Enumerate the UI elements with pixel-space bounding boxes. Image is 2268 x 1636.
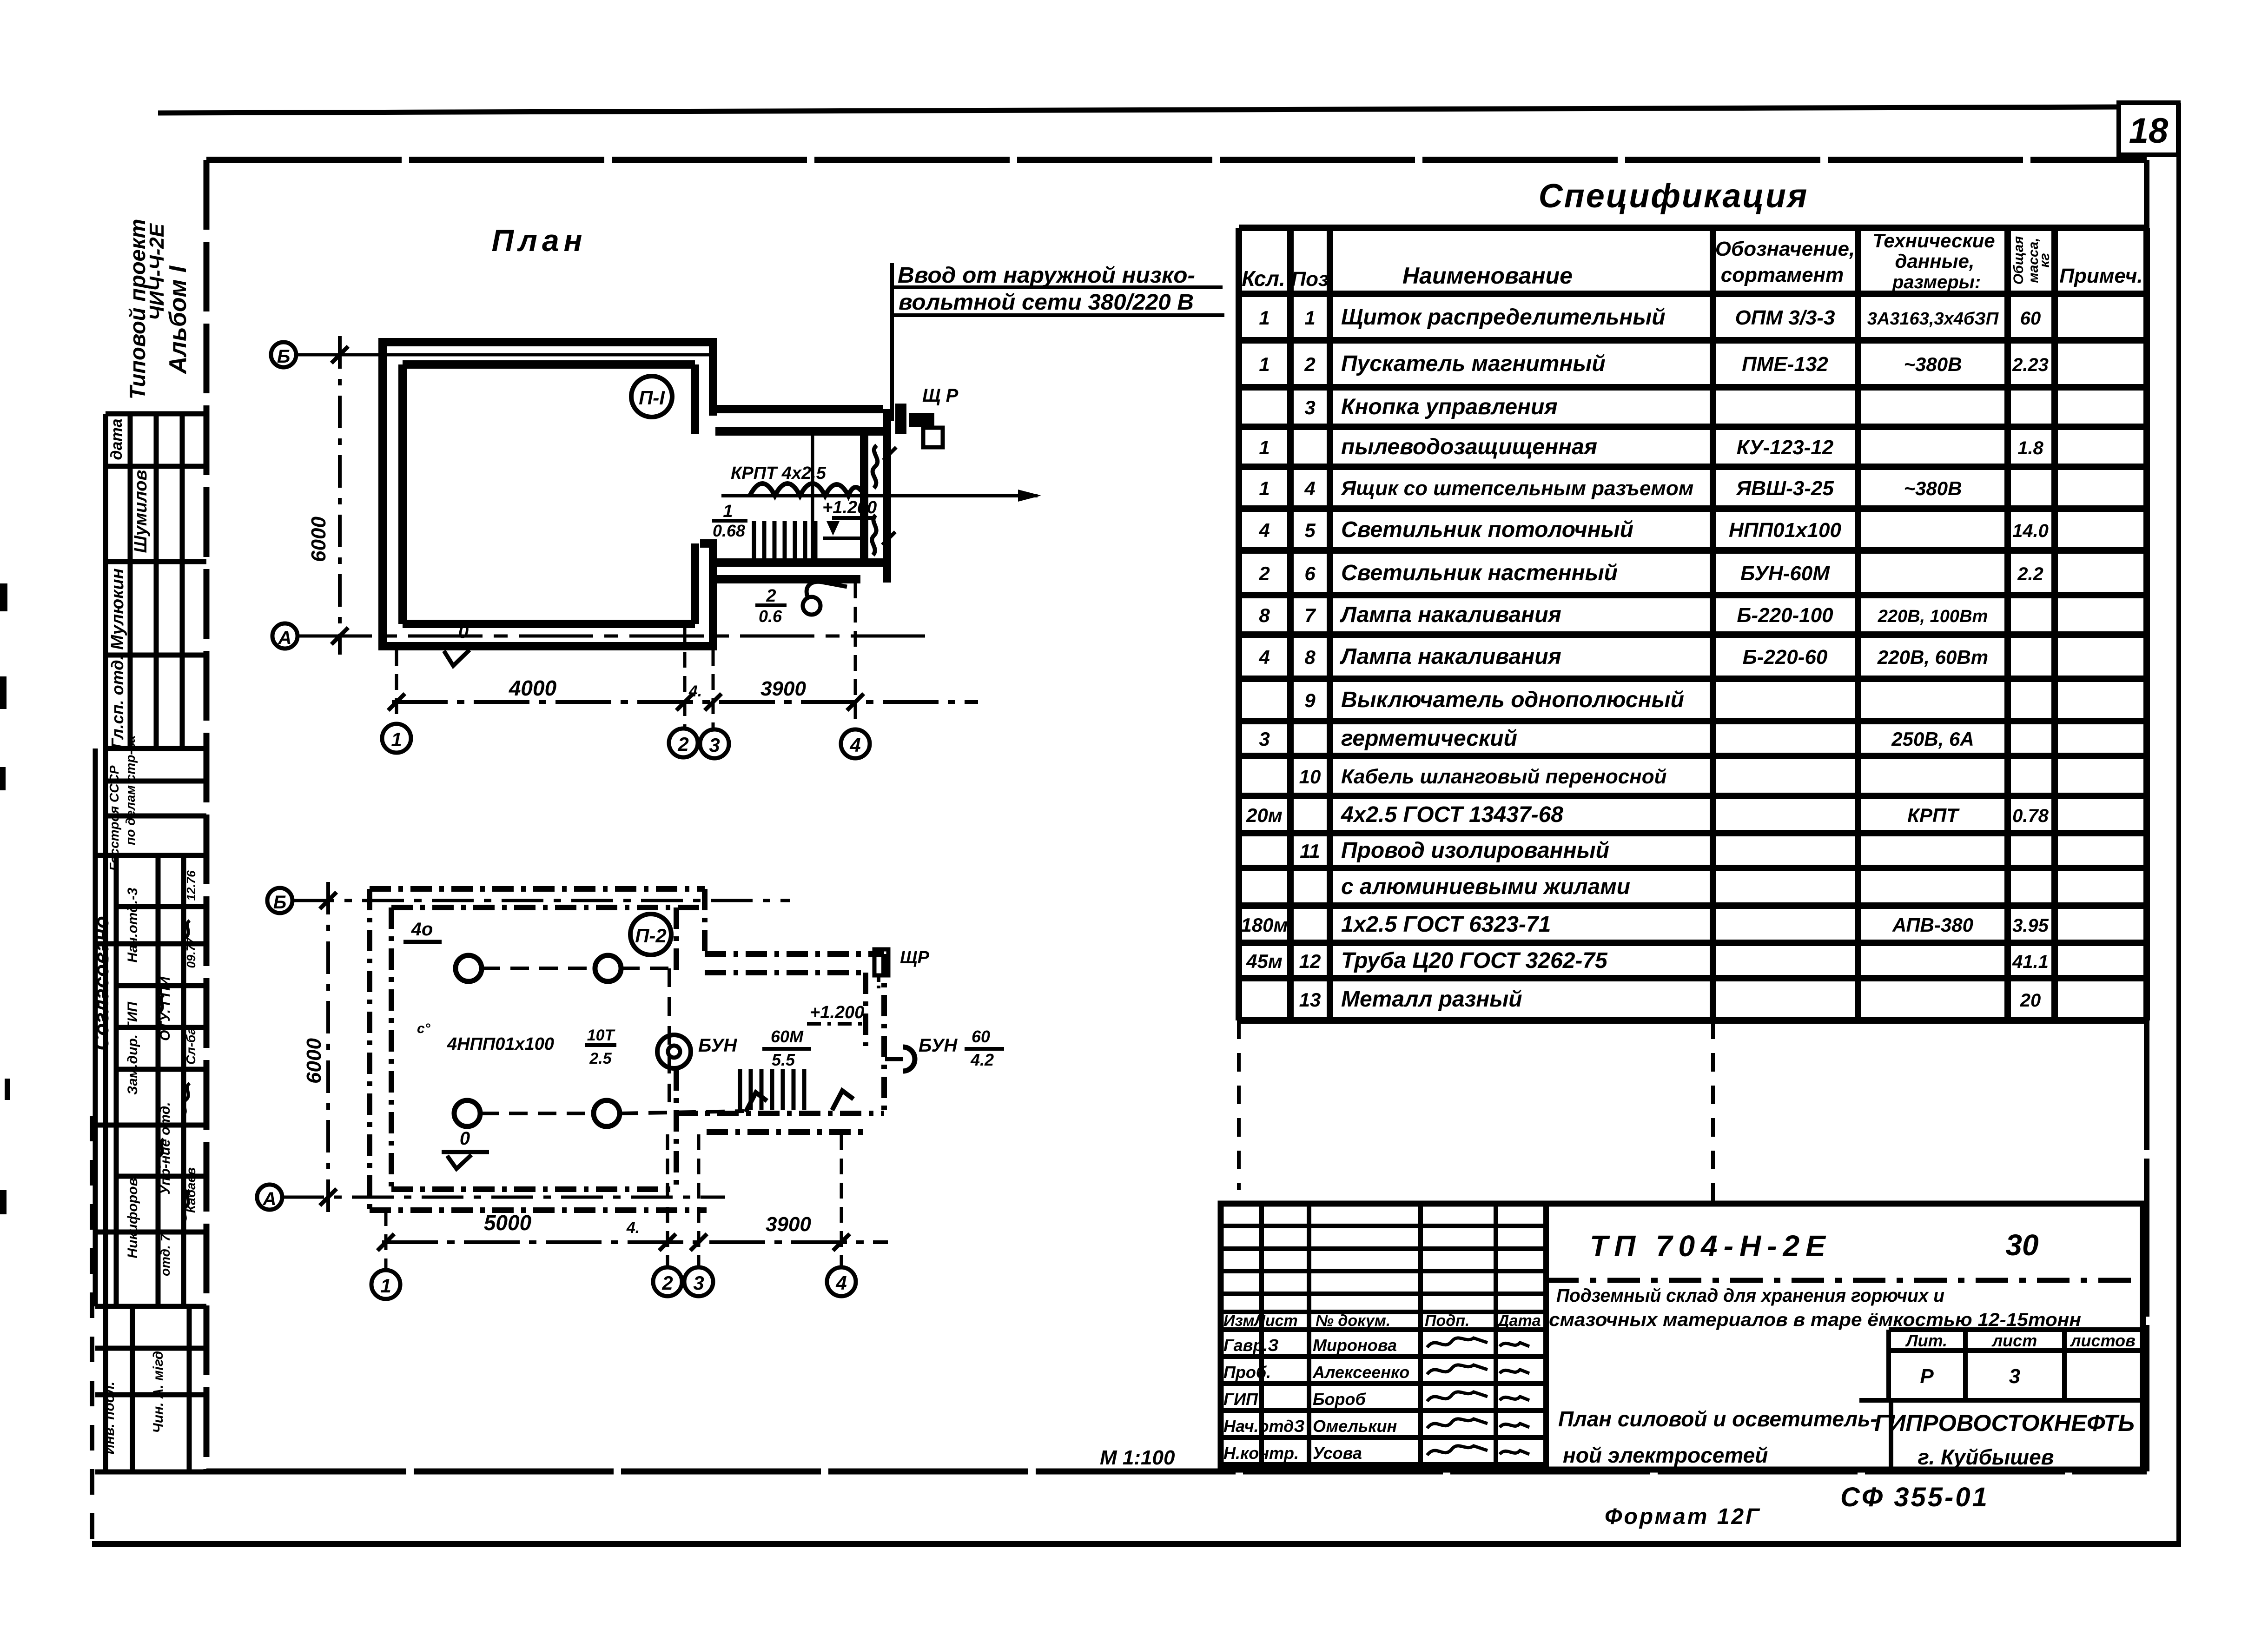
wall lamp symbol (dot circle) (657, 1035, 691, 1068)
svg-text:Бороб: Бороб (1313, 1390, 1366, 1409)
svg-text:4.2: 4.2 (970, 1050, 994, 1069)
svg-text:А: А (263, 1189, 277, 1209)
ceiling lamp 1 (456, 955, 482, 981)
svg-text:План силовой и осветитель-: План силовой и осветитель- (1558, 1407, 1878, 1431)
svg-text:20: 20 (2020, 990, 2041, 1011)
svg-text:0: 0 (460, 1128, 470, 1149)
svg-text:4: 4 (1258, 519, 1270, 541)
svg-text:2: 2 (661, 1272, 673, 1294)
svg-text:2.23: 2.23 (2012, 355, 2049, 375)
svg-text:13: 13 (1299, 989, 1321, 1011)
svg-text:Р: Р (1920, 1365, 1934, 1388)
svg-text:4о: 4о (411, 919, 433, 940)
lower plan right wall low segment (674, 1069, 679, 1189)
axis B circle (271, 342, 296, 367)
svg-text:Омелькин: Омелькин (1313, 1417, 1397, 1436)
svg-text:5000: 5000 (484, 1211, 532, 1235)
lower plan bottom wall (370, 1207, 707, 1213)
svg-text:ОПМ 3/3-3: ОПМ 3/3-3 (1735, 306, 1835, 329)
svg-text:Дата: Дата (1496, 1312, 1541, 1330)
svg-text:размеры:: размеры: (1892, 272, 1981, 292)
svg-text:1: 1 (1259, 477, 1270, 499)
left stamp lower rotated words (102, 1347, 166, 1455)
svg-text:1: 1 (1259, 353, 1270, 375)
fold mark dashes below table (1711, 1020, 1715, 1204)
svg-text:4: 4 (835, 1272, 846, 1294)
svg-text:Миронова: Миронова (1313, 1336, 1397, 1355)
svg-text:6: 6 (1304, 563, 1316, 584)
lower axis drop lines (384, 1210, 388, 1270)
specification rows (1241, 305, 2049, 1012)
lower axis B line (292, 899, 790, 902)
cable coil loops (750, 484, 861, 496)
page right border (2176, 103, 2181, 1547)
svg-text:АПВ-380: АПВ-380 (1892, 914, 1973, 936)
svg-text:сортамент: сортамент (1721, 264, 1844, 286)
svg-text:2: 2 (1304, 353, 1315, 375)
svg-text:Согласовано: Согласовано (90, 916, 113, 1050)
svg-text:0.6: 0.6 (759, 607, 782, 626)
svg-text:~380В: ~380В (1904, 477, 1962, 499)
svg-text:4000: 4000 (509, 676, 557, 700)
svg-text:3: 3 (693, 1272, 704, 1294)
svg-text:4НПП01х100: 4НПП01х100 (447, 1034, 554, 1054)
svg-text:Провод изолированный: Провод изолированный (1341, 838, 1609, 863)
svg-text:Упр-ние отд.: Упр-ние отд. (158, 1102, 173, 1194)
lower axis B circle (267, 888, 292, 913)
svg-text:Б: Б (277, 346, 290, 367)
svg-text:11: 11 (1300, 840, 1320, 862)
svg-text:+1.200: +1.200 (822, 498, 877, 517)
upper room tag circle P-I (631, 376, 672, 417)
svg-text:П-I: П-I (639, 387, 665, 409)
svg-text:БУН: БУН (698, 1035, 737, 1056)
upper horizontal dimension line (392, 700, 978, 704)
svg-text:Наименование: Наименование (1402, 263, 1573, 289)
wall lamp right (half circle) (903, 1047, 915, 1071)
stamp cell divider (1889, 1400, 1893, 1470)
svg-text:кг: кг (2037, 253, 2052, 267)
svg-text:Ящик со штепсельным разъемом: Ящик со штепсельным разъемом (1341, 477, 1693, 500)
svg-text:№ докум.: № докум. (1316, 1312, 1390, 1330)
axis A circle (272, 623, 298, 649)
stair landing pier (700, 539, 717, 548)
lamp wiring riser (668, 968, 671, 1106)
svg-text:Б-220-60: Б-220-60 (1743, 646, 1828, 669)
svg-text:Кабель шланговый переносной: Кабель шланговый переносной (1341, 765, 1667, 788)
lit header texts (1905, 1331, 2136, 1388)
svg-text:10: 10 (1299, 766, 1321, 788)
wall squiggle marks (873, 445, 878, 488)
svg-text:4: 4 (1304, 477, 1315, 499)
svg-text:дата: дата (108, 418, 126, 460)
left stamp table middle (95, 748, 206, 1306)
page top rule (158, 107, 2119, 113)
svg-text:Н.контр.: Н.контр. (1223, 1444, 1299, 1463)
lower room tag circle P-2 (630, 914, 671, 955)
svg-text:60М: 60М (771, 1027, 804, 1046)
svg-text:Технические: Технические (1872, 230, 1995, 252)
svg-text:пылеводозащищенная: пылеводозащищенная (1341, 435, 1597, 459)
svg-text:5: 5 (1304, 519, 1316, 541)
svg-text:3900: 3900 (760, 677, 806, 700)
svg-text:Б-220-100: Б-220-100 (1737, 604, 1833, 627)
svg-text:60: 60 (2020, 308, 2041, 329)
svg-text:Чин. А. мігд.: Чин. А. мігд. (151, 1347, 166, 1433)
svg-text:6000: 6000 (303, 1038, 325, 1084)
svg-text:СФ 355-01: СФ 355-01 (1840, 1482, 1989, 1512)
lower axis circle 3 (684, 1267, 713, 1296)
left stamp extra partition (116, 855, 206, 1306)
lamp wiring row 2 (480, 1112, 594, 1115)
svg-text:Светильник настенный: Светильник настенный (1341, 561, 1618, 585)
svg-text:14.0: 14.0 (2012, 521, 2049, 541)
svg-text:смазочных материалов в таре ём: смазочных материалов в таре ёмкостью 12-… (1549, 1310, 2081, 1330)
svg-text:НПП01х100: НПП01х100 (1729, 519, 1841, 542)
lower ShchR symbol (874, 949, 888, 975)
switchboard ShchR upper (895, 404, 934, 434)
svg-text:12.76: 12.76 (184, 870, 198, 901)
svg-text:4: 4 (1258, 646, 1270, 668)
svg-text:Труба Ц20 ГОСТ 3262-75: Труба Ц20 ГОСТ 3262-75 (1341, 948, 1608, 973)
svg-text:5.5: 5.5 (772, 1050, 795, 1069)
svg-text:КУ-123-12: КУ-123-12 (1737, 436, 1834, 459)
upper plan left wall (378, 338, 387, 646)
lower axis A line (282, 1196, 725, 1199)
drawing frame left (204, 160, 210, 1471)
svg-text:лист: лист (1991, 1331, 2037, 1350)
lower stairs hatch (740, 1069, 804, 1110)
left stamp middle rotated words (90, 735, 198, 1276)
upper vertical dimension line (338, 336, 342, 655)
svg-text:ПМЕ-132: ПМЕ-132 (1742, 353, 1828, 376)
svg-text:Инв. подл.: Инв. подл. (102, 1382, 117, 1455)
scan specks left edge (0, 583, 10, 1214)
svg-text:Усова: Усова (1313, 1444, 1362, 1463)
drawing frame right (2144, 160, 2149, 1471)
svg-text:7: 7 (1304, 604, 1316, 626)
svg-text:+1.200: +1.200 (810, 1003, 864, 1022)
lower axis circle 1 (371, 1270, 400, 1299)
svg-text:4.: 4. (626, 1219, 640, 1237)
upper axis circle 1 (382, 724, 411, 753)
lower axis A circle (257, 1185, 282, 1210)
left stamp upper rotated names (108, 418, 151, 748)
svg-text:1.8: 1.8 (2017, 438, 2043, 458)
drawing frame top (206, 157, 2147, 163)
svg-text:220В, 100Вт: 220В, 100Вт (1878, 607, 1988, 626)
svg-text:Альбом I: Альбом I (165, 265, 192, 375)
title block outer box (1221, 1204, 2143, 1470)
specification header texts (1242, 230, 2142, 292)
axis A line (298, 635, 931, 638)
svg-text:Подп.: Подп. (1425, 1312, 1469, 1330)
upper stairs hatch (754, 521, 815, 560)
svg-text:3.95: 3.95 (2012, 915, 2049, 936)
svg-text:1х2.5 ГОСТ 6323-71: 1х2.5 ГОСТ 6323-71 (1341, 912, 1551, 937)
svg-text:Подземный склад для хранения: Подземный склад для хранения горючих и (1556, 1285, 1944, 1306)
svg-text:1: 1 (380, 1275, 391, 1297)
svg-text:Никифоров: Никифоров (125, 1178, 140, 1258)
svg-text:Поз: Поз (1291, 268, 1329, 291)
divider under code (1546, 1278, 2143, 1283)
lower switch mark right (832, 1091, 853, 1110)
axis B line (296, 353, 716, 357)
svg-text:листов: листов (2070, 1331, 2136, 1350)
svg-text:Ввод от наружной низко-: Ввод от наружной низко- (898, 263, 1195, 288)
svg-text:2.5: 2.5 (589, 1050, 612, 1067)
stair shaft south wall (715, 558, 884, 567)
svg-text:Шумилов: Шумилов (131, 470, 151, 553)
svg-text:18: 18 (2129, 111, 2169, 151)
svg-text:Лампа накаливания: Лампа накаливания (1340, 644, 1561, 669)
svg-text:12: 12 (1299, 950, 1321, 972)
service drop wire (890, 263, 894, 421)
specification table grid (1239, 228, 2147, 1020)
svg-text:45м: 45м (1246, 950, 1283, 972)
svg-text:Выключатель однополюсный: Выключатель однополюсный (1341, 688, 1684, 712)
svg-text:Спецификация: Спецификация (1539, 178, 1809, 215)
svg-text:09.77: 09.77 (184, 937, 198, 968)
svg-text:ИзмЛист: ИзмЛист (1223, 1312, 1298, 1330)
stair shaft north wall (715, 405, 883, 413)
svg-text:0: 0 (458, 622, 469, 642)
lit section grid (1859, 1330, 2143, 1400)
svg-text:вольтной сети 380/220 В: вольтной сети 380/220 В (899, 290, 1194, 315)
svg-text:КРПТ: КРПТ (1907, 804, 1960, 826)
svg-text:Пускатель магнитный: Пускатель магнитный (1341, 351, 1606, 376)
svg-text:9: 9 (1304, 689, 1316, 711)
title block left grid (1221, 1204, 1546, 1470)
svg-text:180м: 180м (1241, 914, 1288, 936)
svg-text:БУН-60М: БУН-60М (1740, 562, 1830, 585)
svg-text:3А3163,3х4бЗП: 3А3163,3х4бЗП (1867, 309, 1999, 329)
upper axis circle 4 (841, 729, 870, 758)
upper plan bottom wall (378, 642, 717, 650)
fold mark left (1237, 1020, 1241, 1190)
svg-text:Гл.сп. отд.: Гл.сп. отд. (108, 656, 127, 749)
svg-text:6000: 6000 (307, 517, 330, 562)
svg-text:ГИПРОВОСТОКНЕФТЬ: ГИПРОВОСТОКНЕФТЬ (1874, 1410, 2135, 1436)
svg-text:Ксл.: Ксл. (1242, 266, 1285, 291)
svg-text:Примеч.: Примеч. (2059, 265, 2142, 287)
svg-text:4х2.5 ГОСТ 13437-68: 4х2.5 ГОСТ 13437-68 (1341, 802, 1563, 827)
svg-text:ОТУ. ГПИ: ОТУ. ГПИ (158, 976, 173, 1041)
lower plan top wall (370, 886, 705, 892)
left stamp rotated album titles (125, 219, 192, 400)
upper plan right wall lower segment (709, 543, 717, 646)
left margin dashed edge (90, 1116, 94, 1543)
svg-text:1: 1 (1304, 307, 1315, 329)
svg-text:Б: Б (273, 892, 286, 913)
page bottom rule (92, 1541, 2180, 1547)
svg-text:2: 2 (766, 586, 776, 606)
svg-text:Металл разный: Металл разный (1341, 987, 1522, 1012)
stair landing edge line (811, 434, 814, 559)
level triangle (827, 521, 840, 536)
svg-text:данные,: данные, (1895, 250, 1975, 272)
svg-text:Щиток распределительный: Щиток распределительный (1341, 305, 1666, 330)
svg-text:1: 1 (391, 729, 402, 750)
svg-text:Сл-ба: Сл-ба (184, 1027, 198, 1065)
svg-text:Нач.отд.-3: Нач.отд.-3 (125, 888, 140, 963)
svg-text:А: А (278, 628, 292, 648)
svg-text:20м: 20м (1246, 804, 1283, 826)
svg-text:~380В: ~380В (1904, 353, 1962, 375)
svg-text:БУН: БУН (919, 1035, 958, 1056)
upper plan axis drop lines (395, 650, 398, 722)
drawing frame bottom (206, 1469, 2147, 1475)
lower plan right wall (674, 907, 679, 976)
ceiling lamp 2 (595, 955, 621, 981)
svg-text:ной электросетей: ной электросетей (1563, 1443, 1768, 1467)
svg-text:Обозначение,: Обозначение, (1715, 238, 1855, 260)
svg-text:3: 3 (2009, 1365, 2020, 1388)
svg-text:0.78: 0.78 (2012, 806, 2049, 826)
svg-text:2: 2 (677, 733, 688, 755)
lower corridor south wall (676, 1111, 884, 1116)
signature rows (1223, 1336, 1409, 1463)
title block main divider (1543, 1204, 1549, 1470)
upper axis circle 3 (700, 729, 729, 758)
svg-text:Лампа накаливания: Лампа накаливания (1340, 603, 1561, 627)
svg-text:Формат 12Г: Формат 12Г (1605, 1504, 1761, 1529)
svg-text:ЯВШ-3-25: ЯВШ-3-25 (1736, 477, 1834, 500)
svg-text:2: 2 (1258, 563, 1270, 584)
svg-text:Зам.дир. ГИП: Зам.дир. ГИП (125, 1001, 140, 1095)
svg-text:Нач.отдЗ: Нач.отдЗ (1223, 1417, 1305, 1436)
svg-text:0.68: 0.68 (713, 521, 745, 540)
svg-text:2.2: 2.2 (2017, 564, 2043, 584)
ceiling lamp 4 (594, 1100, 620, 1126)
lower axis circle 4 (827, 1267, 856, 1296)
pendant lamp upper plan (803, 597, 820, 615)
svg-text:Щ Р: Щ Р (922, 385, 959, 406)
signature scribbles (1427, 1338, 1529, 1455)
svg-text:отд. 7: отд. 7 (158, 1234, 172, 1276)
svg-text:Алексеенко: Алексеенко (1312, 1363, 1409, 1382)
svg-text:250В, 6А: 250В, 6А (1891, 728, 1974, 750)
lower switch mark left (746, 1093, 767, 1112)
svg-text:с°: с° (417, 1021, 431, 1036)
lower corridor north wall (705, 951, 884, 957)
svg-text:220В, 60Вт: 220В, 60Вт (1877, 646, 1988, 668)
svg-text:30: 30 (2005, 1228, 2038, 1262)
svg-text:8: 8 (1259, 604, 1270, 626)
svg-text:Гавр.З: Гавр.З (1223, 1336, 1279, 1355)
svg-text:Проб.: Проб. (1223, 1363, 1271, 1382)
svg-text:4.: 4. (688, 682, 702, 700)
lamp wiring row 1 (482, 967, 595, 970)
svg-text:1: 1 (723, 502, 733, 521)
svg-text:41.1: 41.1 (2012, 952, 2049, 972)
svg-text:Госстроя СССР: Госстроя СССР (107, 765, 121, 871)
svg-text:3: 3 (1304, 397, 1315, 418)
svg-text:Лит.: Лит. (1905, 1331, 1947, 1350)
svg-text:60: 60 (972, 1027, 990, 1046)
svg-text:8: 8 (1304, 646, 1316, 668)
svg-text:П-2: П-2 (635, 925, 667, 947)
svg-text:ЩР: ЩР (900, 948, 930, 967)
svg-text:1: 1 (1259, 307, 1270, 329)
lower corridor east wall (863, 973, 868, 1046)
svg-text:ГИП: ГИП (1223, 1390, 1258, 1409)
svg-text:План: План (491, 223, 587, 258)
svg-text:ТП 704-Н-2Е: ТП 704-Н-2Е (1590, 1229, 1832, 1263)
lower horizontal dimension line (382, 1240, 888, 1244)
svg-text:с алюминиевыми жилами: с алюминиевыми жилами (1341, 874, 1630, 899)
svg-text:10Т: 10Т (587, 1027, 616, 1044)
cable run KRPT (721, 494, 1038, 497)
upper plan top wall (378, 338, 717, 346)
svg-text:3900: 3900 (766, 1213, 811, 1236)
svg-text:Кнопка управления: Кнопка управления (1341, 395, 1558, 419)
svg-text:Мулюкин: Мулюкин (108, 568, 127, 649)
svg-text:по делам стр-ва: по делам стр-ва (123, 735, 138, 845)
left stamp table lower (95, 1306, 206, 1472)
svg-text:КРПТ 4х2,5: КРПТ 4х2,5 (731, 464, 827, 483)
ceiling lamp 3 (454, 1100, 480, 1126)
lower plan left wall (367, 889, 372, 1210)
left strip signature scribbles (157, 921, 190, 1223)
svg-text:3: 3 (709, 734, 720, 756)
svg-text:Общая: Общая (2011, 236, 2026, 285)
svg-text:1: 1 (1259, 437, 1270, 458)
svg-text:Светильник потолочный: Светильник потолочный (1341, 517, 1633, 542)
title block header row texts (1223, 1312, 1541, 1330)
upper plan right wall upper segment (709, 338, 717, 416)
upper axis circle 2 (669, 729, 698, 757)
stair shaft east wall (860, 431, 868, 563)
sheet number box (2119, 103, 2178, 155)
svg-text:герметический: герметический (1341, 726, 1517, 751)
svg-text:4: 4 (849, 734, 860, 756)
svg-text:М 1:100: М 1:100 (1100, 1446, 1175, 1469)
left stamp table upper (106, 414, 206, 1472)
lower vertical dimension line (326, 882, 330, 1216)
svg-text:г. Куйбышев: г. Куйбышев (1918, 1445, 2054, 1469)
lower axis circle 2 (653, 1267, 682, 1296)
svg-text:3: 3 (1259, 728, 1270, 750)
